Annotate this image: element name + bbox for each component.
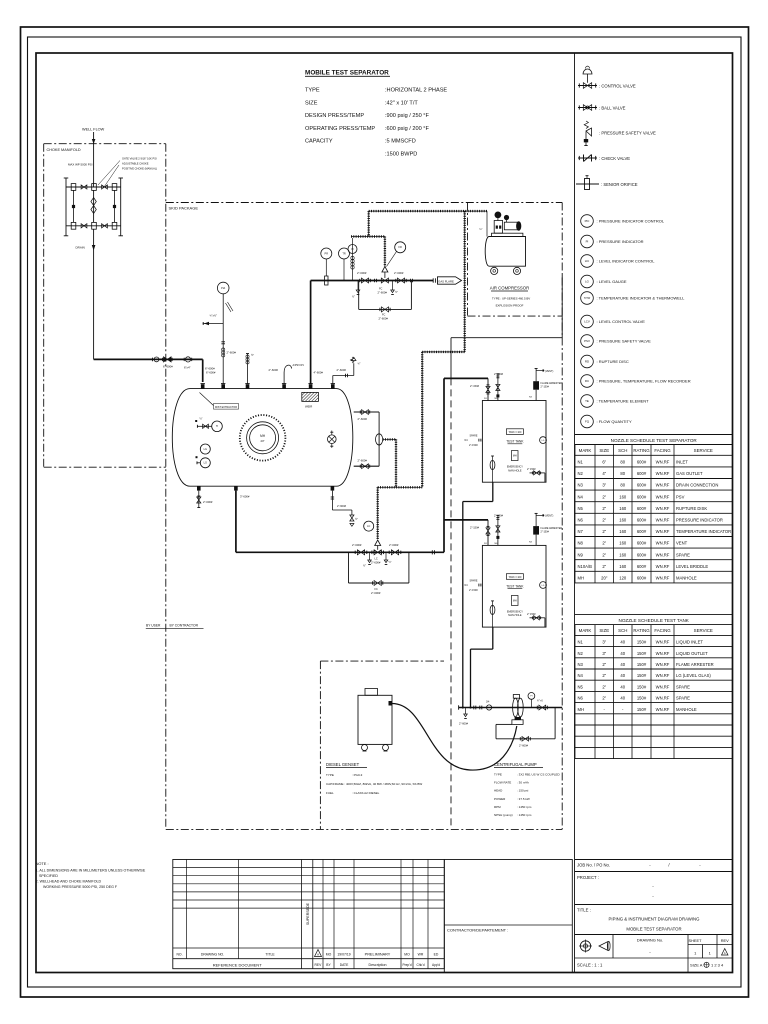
flow control valve FCV (381, 278, 388, 283)
svg-text:N2: N2 (578, 471, 584, 476)
svg-text:SCH: SCH (618, 628, 627, 633)
tank inlet valve stub 1 (487, 378, 489, 400)
svg-text:2"-600#: 2"-600# (459, 722, 469, 726)
svg-text:2"-600#: 2"-600# (337, 504, 347, 508)
svg-text:GAS FLARE: GAS FLARE (438, 280, 454, 284)
gas line drain 2 (392, 281, 394, 291)
svg-text:40: 40 (620, 684, 625, 689)
svg-text:: TEMPERATURE ELEMENT: : TEMPERATURE ELEMENT (597, 399, 650, 404)
svg-text:150#: 150# (637, 662, 647, 667)
svg-text:TANK ± 100: TANK ± 100 (508, 431, 521, 434)
svg-text:WN.RF: WN.RF (656, 494, 670, 499)
svg-text:DESIGN PRESS/TEMP: DESIGN PRESS/TEMP (305, 113, 364, 119)
svg-text:150#: 150# (637, 684, 647, 689)
svg-text:MANHOLE: MANHOLE (676, 576, 697, 581)
vessel internal TI gauge (212, 421, 223, 432)
svg-text:WN.RF: WN.RF (656, 518, 670, 523)
svg-text:LC: LC (375, 558, 378, 561)
inlet pipe run from choke manifold (93, 252, 95, 359)
svg-text:2" 150#: 2" 150# (527, 613, 536, 616)
svg-text:WN.RF: WN.RF (656, 483, 670, 488)
svg-text:¼"+0: ¼"+0 (537, 700, 543, 703)
svg-text:: PRESSURE SAFETY VALVE: : PRESSURE SAFETY VALVE (597, 339, 652, 344)
level control valve LCV (371, 551, 373, 555)
svg-text:MOBILE TEST SEPARATOR: MOBILE TEST SEPARATOR (626, 927, 681, 932)
svg-text:N4: N4 (578, 673, 584, 678)
sample coil to TR (352, 238, 354, 281)
vessel drain stub with valve (198, 491, 200, 508)
svg-text:: LEVEL GAUGE: : LEVEL GAUGE (597, 279, 627, 284)
svg-text:FR: FR (399, 246, 403, 249)
genset power cable to pump (392, 704, 517, 771)
svg-text:DRAWING No.: DRAWING No. (637, 938, 664, 943)
svg-text:¾": ¾" (358, 362, 361, 366)
genset enclosure dash-dot (320, 660, 444, 662)
tank vent line (535, 513, 537, 526)
svg-text::1500 BWPD: :1500 BWPD (385, 152, 417, 158)
svg-text:: PRESSURE, TEMPERATURE, FLOW: : PRESSURE, TEMPERATURE, FLOW RECORDER (597, 379, 691, 384)
svg-text:2"-150#: 2"-150# (469, 589, 478, 592)
choke manifold lower run (66, 225, 121, 227)
mist extractor callout (214, 404, 239, 410)
svg-text:CAPACITY: CAPACITY (305, 139, 333, 145)
svg-text:600#: 600# (637, 471, 647, 476)
svg-text:: SENIOR ORIFICE: : SENIOR ORIFICE (601, 182, 638, 187)
legend instrument LIC (581, 255, 594, 268)
title block: JOB/PO row (575, 859, 733, 861)
svg-text:RATING: RATING (633, 448, 650, 453)
svg-text:LIC: LIC (585, 259, 590, 263)
svg-text:: LEVEL CONTROL VALVE: : LEVEL CONTROL VALVE (597, 319, 646, 324)
svg-text:WN.RF: WN.RF (656, 696, 670, 701)
tank 1 feed line (444, 377, 488, 379)
svg-text:600#: 600# (637, 494, 647, 499)
LC level controller bubble (364, 521, 374, 531)
svg-text:2"-600#: 2"-600# (358, 417, 368, 421)
tank bottom level gauge glass (491, 455, 494, 457)
gas line flange pair (374, 279, 376, 283)
svg-text:SPARE: SPARE (470, 579, 478, 582)
svg-text:GAS OUTLET: GAS OUTLET (676, 471, 703, 476)
svg-text:: RUPTURE DISC: : RUPTURE DISC (597, 359, 629, 364)
legend instrument TI/TW (581, 292, 594, 305)
svg-text:CONTRACTOR/DEPARTEMENT :: CONTRACTOR/DEPARTEMENT : (447, 928, 508, 933)
svg-text:SHEET: SHEET (689, 938, 703, 943)
svg-text:2"-600#: 2"-600# (378, 291, 388, 295)
svg-text:EMERGENCY: EMERGENCY (507, 610, 523, 613)
svg-text:: 3X2 RB1 US W CS COUPLED: : 3X2 RB1 US W CS COUPLED (517, 773, 561, 777)
svg-text:2"-600#: 2"-600# (227, 351, 237, 355)
svg-text:PIPING & INSTRUMENT DIAGRAM DR: PIPING & INSTRUMENT DIAGRAM DRAWING (609, 917, 701, 922)
svg-text:MO: MO (404, 953, 410, 957)
tank inlet valve stub 2 (497, 374, 499, 401)
pressure gauge PI on gas line (348, 245, 357, 254)
tank manhole (511, 596, 518, 606)
svg-text:GATE VALVE 2 9/16" 10K PSI: GATE VALVE 2 9/16" 10K PSI (122, 157, 157, 161)
svg-text:WN.RF: WN.RF (656, 662, 670, 667)
svg-text:: CONTROL VALVE: : CONTROL VALVE (599, 83, 636, 88)
svg-text:ADJUSTABLE CHOKE: ADJUSTABLE CHOKE (122, 162, 149, 166)
level controller bottom tap (354, 465, 379, 467)
air compressor suction pipe (486, 211, 488, 236)
svg-text:DATE: DATE (340, 963, 349, 967)
svg-text:1. ALL DIMENSIONS ARE IN MILLI: 1. ALL DIMENSIONS ARE IN MILLIMETERS UNL… (36, 869, 146, 873)
svg-text:160: 160 (619, 494, 627, 499)
svg-text:WN.RF: WN.RF (656, 651, 670, 656)
svg-text:: PRESSURE INDICATOR CONTROL: : PRESSURE INDICATOR CONTROL (597, 219, 665, 224)
svg-text:: FLOW QUANTITY: : FLOW QUANTITY (597, 419, 632, 424)
vessel level gauges LG N10A/B (200, 444, 210, 454)
svg-text:½": ½" (355, 517, 358, 521)
flow orifice FE (325, 276, 328, 285)
svg-text:2"-600#: 2"-600# (269, 368, 279, 372)
svg-text:160: 160 (619, 541, 627, 546)
svg-text:N1: N1 (578, 640, 584, 645)
svg-text:MARK: MARK (579, 628, 592, 633)
LCV bypass loop (348, 552, 350, 583)
reference document table columns (186, 860, 188, 959)
svg-text:2": 2" (602, 552, 606, 557)
N4 PSV vent hook (283, 373, 285, 385)
choke manifold outer column connectors (73, 191, 75, 223)
svg-text:PSV: PSV (584, 339, 590, 343)
svg-text:: 1450 rpm: : 1450 rpm (517, 813, 532, 817)
svg-text:2"-150#: 2"-150# (470, 525, 480, 529)
svg-text:80: 80 (620, 483, 625, 488)
pump suction header (459, 707, 563, 709)
svg-text:SPARE: SPARE (676, 696, 690, 701)
liquid line flange pair (431, 550, 433, 554)
svg-text:2. WELLHEAD AND CHOKE MANIFOLD: 2. WELLHEAD AND CHOKE MANIFOLD (36, 880, 102, 884)
svg-text:PROJECT :: PROJECT : (577, 875, 599, 880)
svg-text:2"-150#: 2"-150# (541, 386, 550, 389)
svg-text:3": 3" (602, 640, 606, 645)
svg-text:TR: TR (342, 252, 346, 255)
LCV block valve 2 (388, 551, 390, 554)
svg-text:WN.RF: WN.RF (656, 541, 670, 546)
choke manifold center chokes (93, 190, 95, 222)
svg-text:MH: MH (513, 599, 517, 602)
svg-text:40: 40 (620, 673, 625, 678)
pump discharge PI (528, 693, 535, 700)
svg-text:DIESEL GENSET: DIESEL GENSET (326, 762, 360, 767)
gas bypass loop (358, 281, 360, 310)
svg-text:WELL FLOW: WELL FLOW (82, 128, 105, 132)
svg-text:N3: N3 (578, 483, 584, 488)
gas outlet riser N2 (310, 281, 312, 385)
svg-text:FLAME ARRESTER: FLAME ARRESTER (541, 382, 563, 385)
svg-text:160: 160 (619, 529, 627, 534)
tank level gauge right (540, 437, 547, 444)
svg-text:RC: RC (585, 379, 589, 383)
svg-text:SKID PACKAGE: SKID PACKAGE (169, 206, 199, 211)
svg-text:4"-600#: 4"-600# (314, 371, 324, 375)
legend instrument FQ (581, 415, 594, 428)
svg-text:POWER: POWER (494, 797, 506, 801)
legend column divider (574, 53, 576, 973)
svg-text:PIA: PIA (221, 287, 225, 290)
svg-text:EXPLOSION PROOF: EXPLOSION PROOF (496, 304, 524, 308)
tank manhole (511, 451, 518, 461)
svg-text:WN.RF: WN.RF (656, 506, 670, 511)
svg-text:: BALL VALVE: : BALL VALVE (599, 105, 626, 110)
tank 1 drain run (492, 482, 494, 501)
svg-text:2": 2" (602, 696, 606, 701)
svg-text:2"-600#: 2"-600# (519, 744, 529, 748)
svg-text:FLOW RATE: FLOW RATE (494, 781, 511, 785)
svg-text:LIQUID INLET: LIQUID INLET (676, 640, 703, 645)
legend: ball valve symbol (578, 107, 597, 109)
tank inlet valve stub 2 (497, 515, 499, 545)
mist extractor hatched box (302, 392, 319, 401)
table: NOZZLE SCHEDULE TEST SEPARATOR (575, 434, 733, 436)
tank feed riser (443, 378, 445, 552)
svg-text:SIZE A: SIZE A (690, 963, 703, 968)
title block: third angle projection symbol (580, 941, 590, 951)
svg-text:RATING: RATING (633, 628, 650, 633)
svg-text:N7: N7 (578, 529, 584, 534)
svg-text:½": ½" (395, 290, 398, 294)
svg-text:N8: N8 (578, 541, 584, 546)
svg-text:¾"x½": ¾"x½" (210, 314, 218, 318)
svg-text:40: 40 (620, 662, 625, 667)
level controller displacer (376, 434, 383, 445)
manhole MH circle (240, 415, 286, 461)
legend instrument RD (581, 355, 594, 368)
svg-text:20": 20" (601, 576, 608, 581)
svg-text:PI: PI (530, 696, 532, 698)
svg-text:MAX WP 5000 PSI: MAX WP 5000 PSI (68, 163, 93, 167)
air compressor motor (494, 221, 502, 234)
revision table row A entries (315, 950, 322, 957)
svg-text:2"-600#: 2"-600# (358, 458, 368, 462)
svg-text:N5: N5 (578, 684, 584, 689)
svg-text:2": 2" (602, 506, 606, 511)
svg-text:: 37.5 kW: : 37.5 kW (517, 797, 530, 801)
choke manifold upper run (66, 186, 121, 188)
svg-text:ED: ED (434, 953, 439, 957)
table: NOZZLE SCHEDULE TEST TANK (575, 614, 733, 616)
svg-text:POSITIVE CHOKE (MANUAL): POSITIVE CHOKE (MANUAL) (122, 167, 157, 171)
flow recorder FR (395, 242, 406, 253)
svg-text:CENTRIFUGAL PUMP: CENTRIFUGAL PUMP (494, 762, 537, 767)
svg-text:(VENT): (VENT) (545, 515, 554, 518)
svg-text:3": 3" (602, 651, 606, 656)
svg-text:BY CONTRACTOR: BY CONTRACTOR (170, 624, 199, 628)
instrument air drop to FCV branch (368, 211, 370, 236)
svg-text:2": 2" (602, 494, 606, 499)
svg-text:PI: PI (586, 240, 589, 244)
svg-text:2"-150#: 2"-150# (470, 384, 480, 388)
svg-text:LG (LEVEL GLAS): LG (LEVEL GLAS) (676, 673, 711, 678)
test tank shell (482, 545, 546, 627)
svg-text:LC: LC (367, 525, 370, 528)
svg-text:600#: 600# (637, 552, 647, 557)
svg-text:SCALE : 1 : 1: SCALE : 1 : 1 (577, 963, 603, 968)
N8 side test connection (203, 323, 224, 325)
svg-text:3": 3" (602, 483, 606, 488)
tank left LG nozzle (480, 584, 482, 587)
inner contractor boundary dashed vertical (450, 378, 452, 829)
svg-text:2"-150#: 2"-150# (494, 372, 504, 376)
svg-text:2"-600#: 2"-600# (357, 271, 367, 275)
svg-text:TEMPERATURE INDICATOR: TEMPERATURE INDICATOR (676, 529, 731, 534)
svg-text:2"-600#: 2"-600# (379, 317, 389, 321)
svg-text:2": 2" (602, 684, 606, 689)
svg-text:WN.RF: WN.RF (656, 564, 670, 569)
legend instrument TE (581, 395, 594, 408)
svg-text:160: 160 (619, 552, 627, 557)
svg-text:WN.RF: WN.RF (656, 471, 670, 476)
svg-text:DRAWING NO.: DRAWING NO. (201, 953, 224, 957)
svg-text:(VENT): (VENT) (545, 370, 554, 373)
svg-text:160: 160 (619, 506, 627, 511)
pressure instrument line on N8 (222, 294, 224, 384)
svg-text:HEAD: HEAD (494, 789, 503, 793)
svg-text:TE: TE (585, 399, 589, 403)
svg-text:PRELIMINARY: PRELIMINARY (365, 953, 391, 957)
svg-text:CHOKE MANIFOLD: CHOKE MANIFOLD (47, 148, 81, 152)
svg-text:2"-600#: 2"-600# (389, 543, 399, 547)
sample connection nozzle (247, 354, 249, 384)
svg-text:WR: WR (418, 953, 424, 957)
svg-text:TYPE: TYPE (305, 88, 320, 94)
svg-text:4": 4" (602, 471, 606, 476)
svg-text:20": 20" (261, 439, 265, 443)
tank data label (506, 574, 523, 580)
legend: senior orifice symbol (576, 183, 599, 185)
legend instrument PSV (581, 335, 594, 348)
svg-text:600#: 600# (637, 541, 647, 546)
svg-text:600#: 600# (637, 460, 647, 465)
svg-text:2": 2" (602, 529, 606, 534)
svg-text:TEST TANK: TEST TANK (506, 584, 524, 588)
svg-text:N4: N4 (578, 494, 584, 499)
legend: control valve symbol (578, 85, 597, 87)
gas block valve 2 (395, 279, 397, 282)
svg-text:: LEVEL INDICATOR CONTROL: : LEVEL INDICATOR CONTROL (597, 259, 656, 264)
svg-text:REFERENCE DOCUMENT: REFERENCE DOCUMENT (213, 962, 262, 967)
svg-text:LG: LG (542, 440, 545, 442)
legend: pressure safety valve symbol (586, 128, 592, 136)
svg-text:120: 120 (619, 576, 627, 581)
N8 flange pair and coil (221, 341, 225, 343)
svg-text:WN.RF: WN.RF (656, 529, 670, 534)
svg-text:FC: FC (375, 588, 379, 591)
svg-text:150#: 150# (637, 707, 647, 712)
svg-text:A: A (724, 951, 726, 955)
svg-text:: PRESSURE SAFETY VALVE: : PRESSURE SAFETY VALVE (599, 131, 656, 136)
svg-text:6"x4": 6"x4" (184, 365, 191, 369)
legend instrument LCV (581, 315, 594, 328)
svg-text:2": 2" (602, 541, 606, 546)
svg-text:600#: 600# (637, 483, 647, 488)
air compressor tank (485, 237, 525, 267)
svg-text:3"-600#: 3"-600# (240, 495, 250, 499)
svg-text:150#: 150# (637, 673, 647, 678)
tank 2 feed line (444, 519, 488, 521)
vortex breaker (328, 435, 337, 444)
inlet reducer spectacle (185, 357, 190, 362)
svg-text:600#: 600# (637, 576, 647, 581)
separator vessel shell (172, 389, 353, 487)
svg-text:150#: 150# (637, 640, 647, 645)
air compressor wheels (491, 267, 498, 274)
svg-text::900 psig / 250 °F: :900 psig / 250 °F (385, 113, 429, 119)
svg-text:TI/TW: TI/TW (584, 298, 591, 300)
svg-text:SPECIFIED: SPECIFIED (39, 874, 58, 878)
level control tap bottom right (331, 491, 333, 510)
svg-text:MANHOLE: MANHOLE (676, 707, 697, 712)
inlet flange and spacer (152, 358, 154, 362)
svg-text:150#: 150# (637, 651, 647, 656)
svg-text:40: 40 (620, 651, 625, 656)
title block: drawing number / sheet / rev cells (612, 935, 614, 959)
svg-text:¼": ¼" (480, 227, 483, 231)
skid package boundary bottom (166, 828, 562, 830)
svg-text:Prep'd: Prep'd (402, 963, 411, 967)
vessel top nozzles (201, 384, 205, 389)
utility header to skid edge (451, 337, 562, 339)
gas line flange pair 2 (410, 279, 412, 283)
gas line drain 1 (357, 281, 359, 291)
svg-text:MH: MH (513, 455, 517, 458)
svg-text:FACING: FACING (654, 628, 671, 633)
suction flanges (473, 706, 475, 710)
svg-text:TANK ± 100: TANK ± 100 (508, 576, 521, 579)
svg-text:N10A/B: N10A/B (578, 564, 593, 569)
choke manifold headers (65, 178, 67, 236)
svg-text:OPERATING PRESS/TEMP: OPERATING PRESS/TEMP (305, 126, 375, 132)
tank data label (506, 429, 523, 435)
svg-text:MAN-HOLE: MAN-HOLE (508, 469, 522, 472)
genset wheels (362, 745, 368, 751)
svg-text:Chk'd: Chk'd (416, 963, 424, 967)
svg-text:MAN-HOLE: MAN-HOLE (508, 614, 522, 617)
svg-text:2"-600#: 2"-600# (352, 543, 362, 547)
svg-text:LEVEL BRIDDLE: LEVEL BRIDDLE (676, 564, 708, 569)
discharge valve (536, 706, 538, 710)
tank bottom level gauge glass (491, 600, 494, 602)
svg-text:NPSH (pump): NPSH (pump) (494, 813, 513, 817)
svg-text:½": ½" (251, 353, 254, 357)
svg-text:WN.RF: WN.RF (656, 684, 670, 689)
legend instrument RC (581, 375, 594, 388)
svg-text:LG: LG (204, 462, 207, 465)
LCV drain 1 (369, 552, 371, 560)
rupture disk line N5 (332, 376, 334, 385)
svg-text:: 30 m³/h: : 30 m³/h (517, 781, 529, 785)
svg-text:: CHECK VALVE: : CHECK VALVE (599, 156, 630, 161)
svg-text:TITLE: TITLE (265, 953, 275, 957)
inlet ball valve (164, 357, 172, 362)
centrifugal pump symbol (513, 698, 519, 717)
svg-text:LCV: LCV (584, 320, 590, 324)
svg-text:SIZE: SIZE (599, 628, 609, 633)
svg-text:2": 2" (602, 662, 606, 667)
svg-text:2"-150#: 2"-150# (469, 444, 478, 447)
svg-text:2"-600#: 2"-600# (203, 500, 213, 504)
legend instrument LG (581, 275, 594, 288)
LCV drain 2 (385, 552, 387, 560)
svg-text:N5: N5 (578, 506, 584, 511)
svg-text:CAP/FRAME : 400V,50HZ, 80kVA,: CAP/FRAME : 400V,50HZ, 80kVA, 40 BW / 48… (326, 782, 422, 786)
svg-text:VENT: VENT (676, 541, 688, 546)
svg-text:6"-600#: 6"-600# (205, 366, 215, 370)
svg-text:WN.RF: WN.RF (656, 552, 670, 557)
svg-text:2": 2" (602, 673, 606, 678)
svg-text:6": 6" (602, 460, 606, 465)
